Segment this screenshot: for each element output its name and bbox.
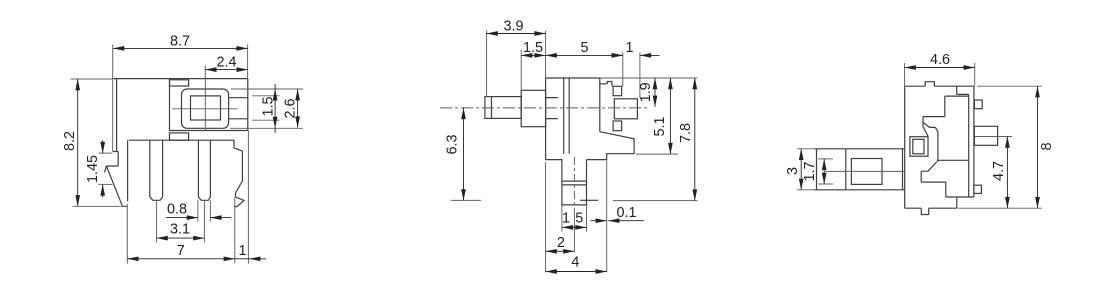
v3 top-right inner step <box>957 86 969 94</box>
v2 dim line 3.9 <box>487 33 546 35</box>
v3 extension 1.7 bottom <box>818 183 833 185</box>
v3 shaft centerline <box>975 136 1012 138</box>
v1 actuator knob outer <box>182 89 229 128</box>
v3 extension 8 top <box>977 85 1042 87</box>
v2 extension 3.9 right <box>545 31 547 79</box>
v2 extension 6.3 bottom <box>451 199 481 201</box>
svg-text:5: 5 <box>580 40 588 56</box>
v3 lever centerline <box>826 170 905 172</box>
v1 extension 8.2 bottom <box>73 205 123 207</box>
svg-text:0.1: 0.1 <box>616 205 636 221</box>
v2 extension 1 right <box>639 52 641 97</box>
v1 head mid vertical <box>169 79 171 131</box>
v2 body right edge <box>599 84 601 132</box>
v2 extension 5 right <box>622 52 624 86</box>
v2 stem <box>546 160 587 205</box>
v3 right stub lower <box>974 185 982 193</box>
v3 right shaft <box>974 126 997 145</box>
v3 extension 4.6 right <box>974 63 976 86</box>
svg-text:0.8: 0.8 <box>167 201 187 217</box>
v1 right terminal leg <box>198 140 210 200</box>
v1 extension right leg centre <box>203 200 205 242</box>
v2 extension 2 centre <box>573 216 575 253</box>
v2 extension 0.1 vertical <box>606 161 608 273</box>
v3 inner claw bottom <box>921 162 946 197</box>
v3 extension 3 top <box>797 148 814 150</box>
v2 extension 1.5 left <box>520 50 522 90</box>
v2 lever shaft left <box>485 97 521 119</box>
v1 extension line top left <box>71 78 113 80</box>
v3 inner wall line <box>968 94 970 197</box>
v1 extension 1.5 top <box>252 95 280 97</box>
v2 extension 7.8 bottom <box>613 200 697 202</box>
v1 extension 2.6 top <box>231 88 303 90</box>
svg-text:8.7: 8.7 <box>170 34 190 50</box>
svg-text:6.3: 6.3 <box>445 134 461 154</box>
v1 body left edge <box>127 140 129 201</box>
v2 dim line 1.5 <box>521 54 545 56</box>
v3 lever knob <box>851 159 882 185</box>
v2 stem band <box>562 181 587 185</box>
v1 extension 2.6 bottom <box>230 127 303 129</box>
v1 dim line 2.4 <box>205 69 248 71</box>
v1 left terminal leg <box>150 140 163 200</box>
v2 extension top right <box>600 77 697 79</box>
v3 dim line 1.7 <box>823 159 825 184</box>
v2 extension stem left <box>561 205 563 232</box>
v1 dim line 3.1 <box>157 237 205 239</box>
svg-text:1: 1 <box>562 211 570 227</box>
v2 shaft hole stubs <box>546 98 558 119</box>
v3 right stub upper <box>974 100 982 109</box>
v2 dim line 6.3 <box>463 108 465 200</box>
svg-text:3.1: 3.1 <box>170 222 190 238</box>
svg-text:3.9: 3.9 <box>503 19 523 35</box>
v2 dim line 7.8 <box>694 78 696 201</box>
v3 dim line 4.6 <box>905 67 975 69</box>
v2 extension 5.1 bottom <box>636 153 678 155</box>
v1 head right edge <box>247 79 249 131</box>
v3 extension 1.7 top <box>818 158 833 160</box>
v2 vertical plate <box>564 78 570 154</box>
v1 tab upper <box>170 80 189 86</box>
v3 knob square inner <box>913 139 924 154</box>
v2 collar <box>521 90 545 126</box>
v2 extension stem right <box>586 205 588 232</box>
v1 extension 8.7 left <box>112 45 114 152</box>
v1 top edge of head <box>112 78 248 80</box>
v2 extension 3.9 left <box>486 31 488 97</box>
v3 dim line 3 <box>800 149 802 190</box>
v2 top tab <box>607 82 612 87</box>
v3 lever outline <box>814 149 904 190</box>
svg-text:4: 4 <box>571 255 579 271</box>
v2 dim line 1.9 <box>654 78 656 107</box>
v2 dim line 5 <box>546 54 623 56</box>
v2 key rect lower <box>613 121 622 131</box>
svg-text:4.6: 4.6 <box>930 52 950 68</box>
svg-text:5.1: 5.1 <box>652 116 668 136</box>
v1 extension 8.7/2.4 right <box>247 45 249 79</box>
v1 extension body left to dim 7 <box>126 204 128 264</box>
v2 key rect upper <box>613 86 622 95</box>
svg-text:7.8: 7.8 <box>678 123 694 143</box>
v1 extension flank step <box>234 197 236 263</box>
v1 dim line 0.8 <box>166 217 198 219</box>
svg-text:1.9: 1.9 <box>638 82 654 102</box>
v2 dim line 2 <box>546 250 575 252</box>
svg-text:1.45: 1.45 <box>85 155 101 183</box>
v1 dim line 7 <box>127 258 235 260</box>
svg-text:5: 5 <box>575 211 583 227</box>
v2 horizontal centerline dash-dot <box>440 107 649 109</box>
v1 dim line 1 <box>235 258 249 260</box>
svg-text:3: 3 <box>785 167 801 175</box>
v2 pin bottom tick <box>580 199 598 201</box>
v1 actuator knob inner <box>191 96 221 120</box>
svg-text:1: 1 <box>625 40 633 56</box>
svg-text:2: 2 <box>557 235 565 251</box>
v3 extension bottom <box>958 207 1042 209</box>
svg-text:1.5: 1.5 <box>261 96 277 116</box>
v2 dim line 1 <box>614 54 623 56</box>
svg-text:7: 7 <box>177 243 185 259</box>
v3 inner block top edge <box>937 159 969 161</box>
v2 dim line 4 <box>546 271 607 273</box>
v1 dim line 1.5 <box>274 84 276 133</box>
v2 body outline left/top <box>546 78 608 160</box>
v2 extension 4 left <box>545 162 547 273</box>
v1 right flank zigzag <box>234 140 244 207</box>
v1 knob side stub lines <box>229 98 248 119</box>
v3 knob square outer <box>910 137 928 157</box>
v3 extension 3 bottom <box>797 189 814 191</box>
v3 extension 4.6 left <box>904 63 906 86</box>
v2 lower dims group (1.5 / 2 / 4) <box>546 162 587 273</box>
v1 extension left leg centre <box>156 200 158 242</box>
v1 extension right leg left edge <box>197 200 199 221</box>
svg-text:1.7: 1.7 <box>802 161 818 181</box>
v3 body outline <box>905 82 974 215</box>
v1 dim line 8.7 <box>113 47 248 49</box>
v2 actuator shaft right <box>614 99 637 119</box>
v1 knob horizontal centerline <box>172 108 238 110</box>
v1 metal bracket side plate <box>105 79 128 206</box>
v1 tab lower <box>170 133 189 140</box>
v2 dim line 0.1 <box>590 220 606 222</box>
v2 dim line 5.1 <box>669 78 671 154</box>
v1 extension right leg right edge <box>209 200 211 221</box>
v1 extension body right edge down <box>247 131 249 264</box>
v1 dim line 1.45 <box>102 140 104 153</box>
v1 lower body top edge <box>129 139 234 141</box>
v1 dim line 2.6 <box>297 89 299 127</box>
svg-text:1.5: 1.5 <box>523 40 543 56</box>
svg-text:8: 8 <box>1039 142 1055 150</box>
v2 stem centerline <box>573 157 575 216</box>
v1 extension 2.4 left through knob <box>204 66 206 131</box>
svg-text:1: 1 <box>238 243 246 259</box>
v1 extension 1.45 upper <box>99 152 113 154</box>
v2 dim line 1.5 bottom <box>562 226 587 228</box>
v1 extension 1.45 lower <box>99 183 113 185</box>
v3 inner claw top <box>923 96 969 162</box>
v3 dim line 8 <box>1037 86 1039 208</box>
v2 flank diagonal <box>587 132 635 160</box>
v1 extension 1.5 bottom <box>252 119 280 121</box>
v2 shaft cap line <box>491 97 493 119</box>
svg-text:8.2: 8.2 <box>62 131 78 151</box>
svg-text:2.4: 2.4 <box>216 55 236 71</box>
v1 dim line 8.2 <box>77 79 79 206</box>
svg-text:4.7: 4.7 <box>991 161 1007 181</box>
v1 head bottom edge <box>170 130 248 132</box>
v3 dim line 4.7 <box>1006 137 1008 209</box>
svg-text:2.6: 2.6 <box>283 98 299 118</box>
